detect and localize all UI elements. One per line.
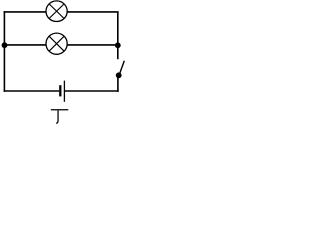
wire: top rail right segment — [67, 11, 119, 13]
wire: bottom rail right segment — [65, 90, 119, 92]
wire: top rail left segment — [4, 11, 47, 13]
wire: left rail vertical — [3, 11, 5, 92]
wire: middle row left segment — [4, 44, 46, 46]
wire: right rail upper (top corner to switch fixed contact) — [117, 12, 119, 59]
label 丁 stem with left hook — [56, 110, 58, 123]
node: left junction dot — [2, 42, 8, 48]
label 丁 (diagram D) below battery: top bar — [51, 109, 69, 111]
wire: bottom rail left segment — [4, 90, 60, 92]
node: right junction dot — [115, 42, 121, 48]
lamp L1 (top) — [46, 1, 67, 22]
wire: middle row right segment — [67, 44, 119, 46]
battery negative plate (short thick) — [59, 85, 61, 96]
wire: right rail lower (switch pivot to bottom corner) — [117, 75, 119, 92]
battery positive plate (long thin) — [63, 81, 65, 102]
switch S1 lever (open blade) — [119, 61, 124, 75]
switch S1 pivot dot — [116, 72, 122, 78]
lamp L2 (bottom) — [46, 33, 67, 54]
